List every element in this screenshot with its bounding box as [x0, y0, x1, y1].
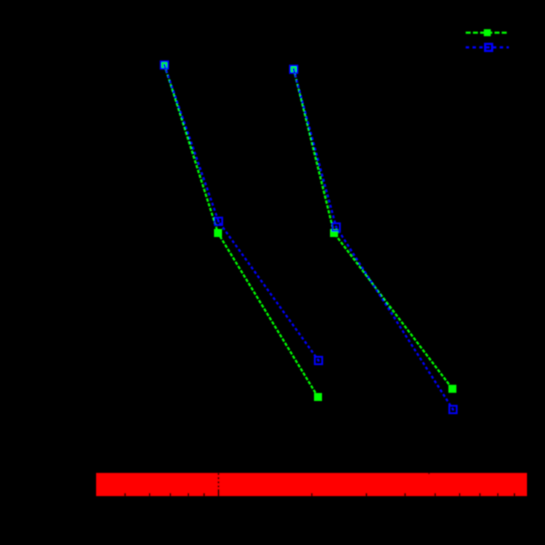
x-axis minor tick 8: [497, 493, 499, 496]
x-axis grid line at major tick: [218, 473, 220, 489]
x-axis minor tick 4: [404, 493, 406, 496]
x-axis minor tick 7: [479, 493, 481, 496]
legend blue sample line: [466, 46, 509, 48]
x-axis minor tick 3: [366, 493, 368, 496]
blue series left segment: [164, 65, 318, 361]
green marker Q3: [448, 385, 456, 393]
x-axis minor tick 7e-1: [170, 493, 172, 496]
x-axis minor tick 9e-1: [203, 493, 205, 496]
blue open marker P1: [161, 61, 168, 68]
x-axis minor tick 9: [514, 493, 516, 496]
blue open marker Q1: [290, 66, 297, 73]
blue open marker P3: [315, 357, 322, 364]
green marker P2: [214, 229, 222, 237]
x-axis major tick 1: [218, 489, 220, 496]
blue open marker Q3: [449, 406, 456, 413]
x-axis minor tick 8e-1: [188, 493, 190, 496]
blue series right segment: [294, 69, 453, 409]
x-axis minor tick 5: [434, 493, 436, 496]
green marker P1: [160, 61, 168, 69]
x-axis minor tick 2: [311, 493, 313, 496]
notch on top edge of colorbar: [428, 473, 429, 474]
x-axis minor tick 5e-1: [124, 493, 126, 496]
legend green sample line: [466, 32, 509, 34]
blue open marker Q2: [333, 223, 340, 230]
legend blue open marker: [485, 44, 492, 51]
legend green marker: [484, 29, 491, 36]
red colorbar: [96, 473, 527, 496]
green marker Q2: [330, 229, 338, 237]
green marker Q1: [290, 65, 298, 73]
x-axis minor tick 6e-1: [149, 493, 151, 496]
green series left segment: [164, 65, 318, 397]
blue open marker P2: [215, 218, 222, 225]
x-axis minor tick 6: [459, 493, 461, 496]
green marker P3: [314, 393, 322, 401]
green series right segment: [294, 69, 453, 389]
